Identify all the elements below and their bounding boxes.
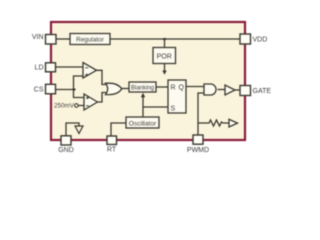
svg-text:LD: LD [35,65,44,72]
svg-text:PWMD: PWMD [187,147,209,154]
svg-text:Regulator: Regulator [76,37,105,44]
svg-text:Blanking: Blanking [131,85,154,91]
svg-text:VDD: VDD [253,37,268,44]
svg-text:Oscillator: Oscillator [129,121,157,128]
svg-text:CS: CS [34,87,44,94]
svg-text:S: S [171,106,176,113]
svg-text:Q: Q [179,85,185,92]
svg-text:VIN: VIN [32,34,44,41]
svg-text:GATE: GATE [253,88,272,95]
svg-text:R: R [171,85,176,92]
svg-text:POR: POR [157,53,172,60]
svg-text:GND: GND [58,147,74,154]
svg-text:250mV: 250mV [54,103,75,110]
svg-text:RT: RT [107,146,117,153]
